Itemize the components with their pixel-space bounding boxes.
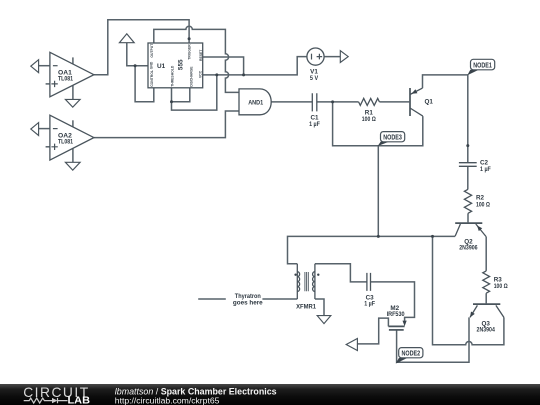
wire R2 to Q2 base bbox=[467, 213, 469, 222]
svg-text:CONTROL: CONTROL bbox=[150, 70, 154, 87]
text annotation Thyratron goes here bbox=[226, 295, 263, 304]
wire XFMR1 secondary top to C3 bbox=[315, 264, 367, 282]
IC U1 555 body bbox=[148, 43, 203, 88]
resistor R2 bbox=[464, 189, 471, 213]
svg-text:THRESHOLD: THRESHOLD bbox=[171, 65, 175, 87]
logo CIRCUIT LAB bbox=[23, 385, 90, 405]
flag at M2 source bbox=[346, 339, 357, 351]
op-amp OA2 bbox=[50, 115, 94, 160]
node label NODE1 bbox=[467, 59, 494, 75]
node label NODE2 bbox=[396, 348, 423, 364]
wire OA2 V- stub to ground bbox=[72, 148, 74, 162]
wire 555 GND to up flag bbox=[127, 43, 148, 66]
svg-text:goes here: goes here bbox=[233, 300, 263, 307]
wire 555 OUTPUT to AND1 input A (hops at x=189.1, y=57, y=74.9) bbox=[154, 26, 239, 92]
svg-text:GND: GND bbox=[150, 61, 154, 69]
svg-text:1 µF: 1 µF bbox=[480, 166, 491, 173]
svg-text:AND1: AND1 bbox=[248, 99, 263, 106]
wire Q2 emitter to R3 bbox=[485, 236, 487, 271]
svg-text:IRF530: IRF530 bbox=[387, 311, 405, 318]
wire C3 to M2 drain bbox=[371, 282, 415, 321]
wire Q1 emitter to NODE1 to C2 bbox=[423, 75, 468, 163]
svg-text:NODE1: NODE1 bbox=[473, 62, 492, 69]
voltage source V1 bbox=[307, 48, 324, 65]
svg-text:2N3906: 2N3906 bbox=[459, 244, 478, 251]
resistor R3 bbox=[483, 271, 490, 293]
wire OA1 V+ stub bbox=[72, 57, 74, 64]
wire 555 THRESHOLD-DISCHARGE tie bbox=[172, 88, 190, 102]
wire R3 to Q3 base bbox=[485, 293, 487, 303]
svg-text:TRIGGER: TRIGGER bbox=[188, 44, 192, 60]
transformer XFMR1 bbox=[297, 264, 315, 299]
wire XFMR1 secondary bottom to ground bbox=[315, 299, 324, 316]
wire C2 to R2 bbox=[467, 166, 469, 189]
wire OA2 V+ stub bbox=[72, 120, 74, 127]
wire Q3 collector to Q2 collector net (hops at x=469) bbox=[433, 236, 504, 344]
wire node3 net: junction to NODE3 run to Q1 collector bbox=[333, 102, 423, 146]
node label NODE3 bbox=[378, 132, 405, 147]
svg-text:NODE2: NODE2 bbox=[401, 351, 420, 358]
svg-text:100 Ω: 100 Ω bbox=[476, 201, 490, 208]
wire C1 to R1 bbox=[317, 101, 359, 103]
AND gate AND1 bbox=[239, 89, 271, 115]
wire OA1 non-inverting input stub bbox=[46, 83, 50, 85]
capacitor C2 bbox=[459, 163, 477, 167]
wire V1 plus to right flag bbox=[324, 56, 340, 58]
svg-text:TL081: TL081 bbox=[58, 75, 73, 82]
wire 555 VCC to V1 minus terminal bbox=[203, 57, 307, 75]
transistor Q3 bbox=[470, 304, 504, 317]
svg-text:100 Ω: 100 Ω bbox=[362, 116, 376, 123]
svg-text:Q1: Q1 bbox=[425, 99, 434, 106]
capacitor C3 bbox=[367, 273, 371, 291]
wire R1 to Q1 base bbox=[379, 101, 409, 103]
svg-text:2N3904: 2N3904 bbox=[477, 326, 496, 333]
svg-text:VCC: VCC bbox=[198, 70, 202, 78]
flag OA2 input bbox=[31, 123, 39, 136]
svg-text:1 µF: 1 µF bbox=[364, 301, 375, 308]
svg-text:XFMR1: XFMR1 bbox=[296, 303, 316, 310]
wire OA2 output to AND1 input B bbox=[94, 111, 239, 138]
transistor Q1 bbox=[410, 88, 423, 116]
svg-text:100 Ω: 100 Ω bbox=[494, 283, 508, 290]
ground OA1 bbox=[65, 99, 80, 107]
svg-text:1 µF: 1 µF bbox=[309, 121, 320, 128]
op-amp OA1 bbox=[50, 52, 94, 97]
flag OA1 input bbox=[31, 60, 39, 73]
svg-text:LAB: LAB bbox=[68, 395, 91, 405]
wire OA1 inverting input stub bbox=[39, 65, 50, 67]
wire Q3 emitter to NODE2 to M2 gate bbox=[397, 317, 469, 362]
component text labels bbox=[58, 43, 508, 334]
transistor Q2 bbox=[455, 223, 486, 236]
flag at V1 plus bbox=[340, 51, 348, 63]
ground XFMR1 secondary bbox=[317, 316, 331, 324]
svg-text:555: 555 bbox=[177, 59, 184, 70]
wire 555 RESET to VCC net bbox=[203, 57, 244, 75]
wire GND junction to 555 CONTROL bbox=[135, 66, 154, 102]
wire OA2 non-inverting input stub bbox=[46, 146, 50, 148]
svg-text:RESET: RESET bbox=[199, 49, 203, 61]
svg-text:http://circuitlab.com/ckrpt65: http://circuitlab.com/ckrpt65 bbox=[115, 395, 220, 405]
XFMR1 phase dots bbox=[294, 274, 296, 276]
resistor R1 bbox=[359, 98, 380, 105]
wire OA1 output to 555 TRIGGER pin bbox=[94, 20, 189, 75]
svg-text:OUTPUT: OUTPUT bbox=[150, 43, 154, 58]
wire THRESHOLD junction to VCC net bbox=[172, 75, 217, 110]
capacitor C1 bbox=[312, 93, 317, 111]
wire XFMR1 primary bottom to thyratron stub bbox=[198, 298, 297, 300]
svg-text:NODE3: NODE3 bbox=[383, 135, 402, 142]
wire M2 source to left flag bbox=[357, 318, 388, 344]
wire AND1 output to C1 bbox=[271, 101, 312, 103]
svg-text:TL081: TL081 bbox=[58, 138, 73, 145]
wire OA2 inverting input stub bbox=[39, 128, 50, 130]
wire Q2 collector to XFMR1 primary top bbox=[288, 236, 456, 263]
MOSFET M2 bbox=[388, 321, 406, 330]
svg-text:DISCHARGE: DISCHARGE bbox=[190, 66, 194, 87]
svg-text:5 V: 5 V bbox=[310, 75, 319, 82]
flag at 555 GND bbox=[119, 34, 134, 43]
wire NODE3 to Q2 collector net bbox=[377, 146, 379, 237]
svg-text:U1: U1 bbox=[157, 63, 166, 70]
ground OA2 bbox=[65, 162, 80, 170]
wire OA1 V- stub to ground bbox=[72, 85, 74, 99]
